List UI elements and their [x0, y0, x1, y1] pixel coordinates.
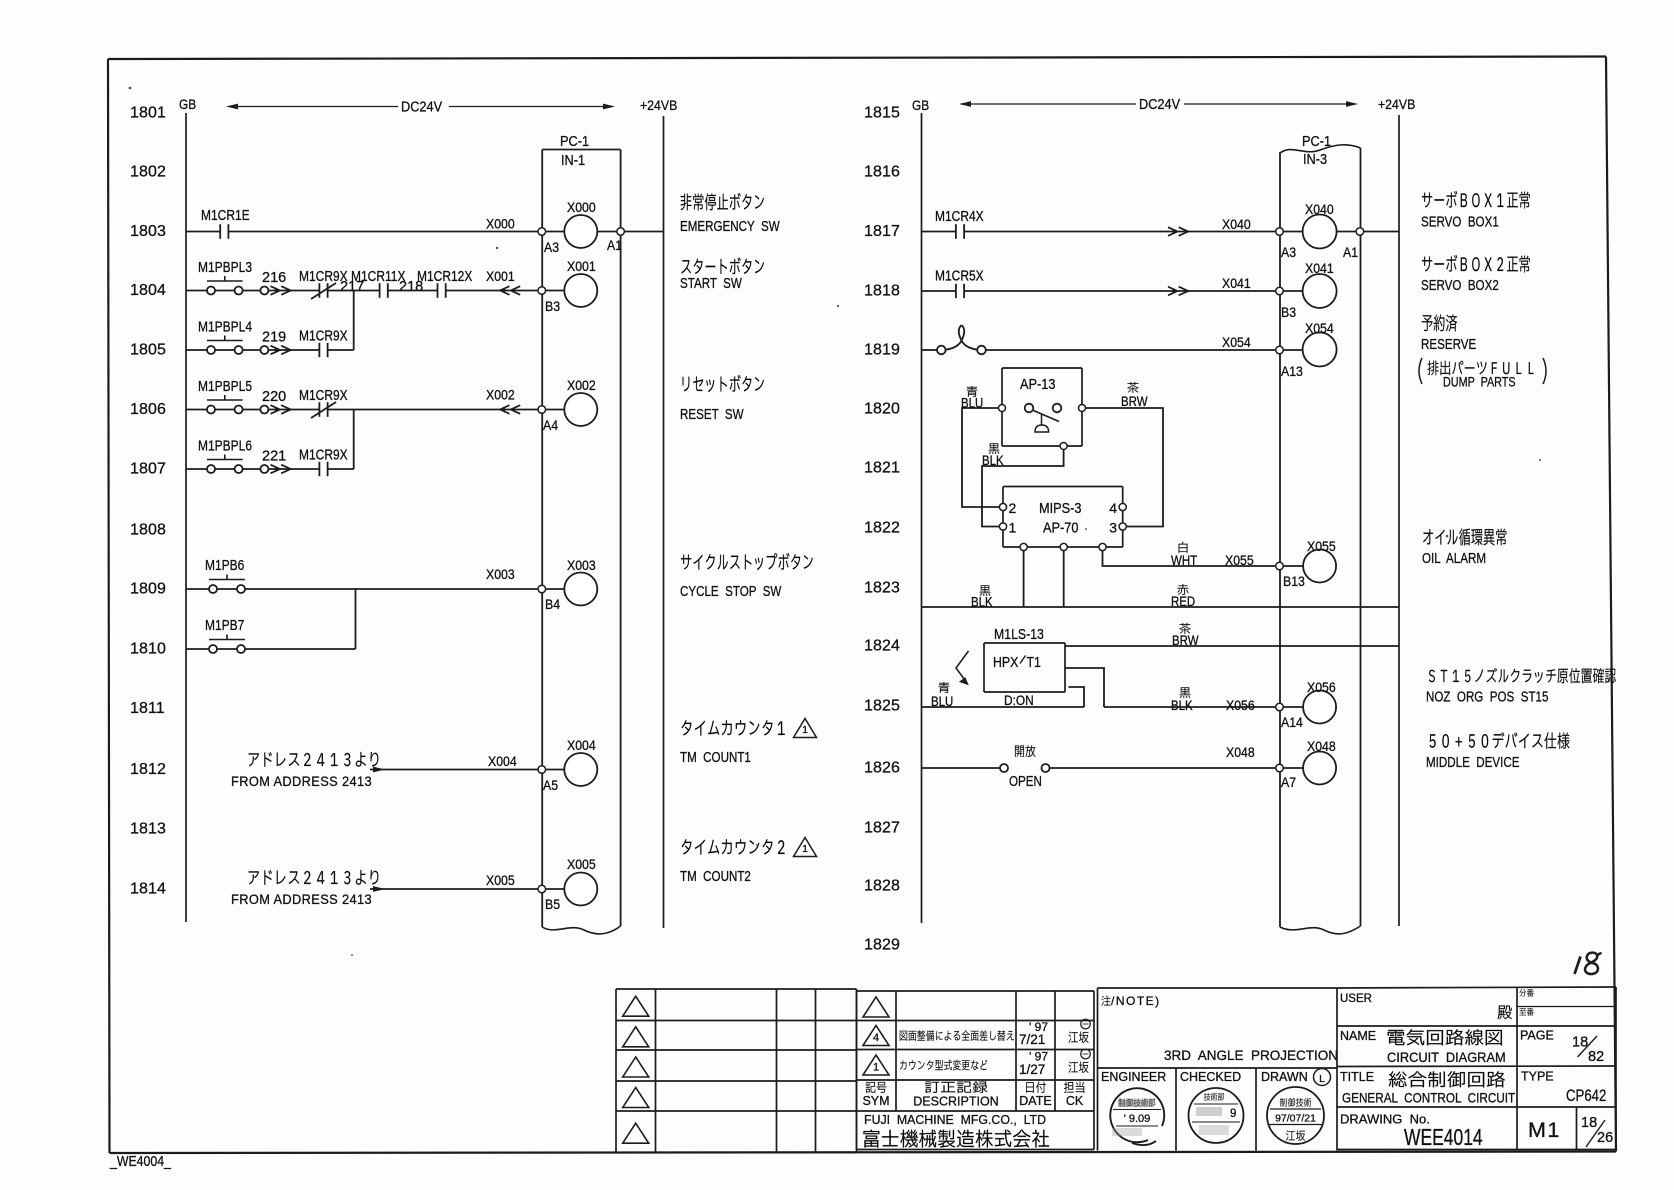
svg-text:M1CR5X: M1CR5X [935, 267, 984, 284]
svg-text:1803: 1803 [130, 223, 166, 240]
svg-text:X048: X048 [1307, 738, 1336, 754]
svg-text:1819: 1819 [864, 342, 900, 359]
wire marker 216 [260, 270, 290, 295]
stamp CHECKED [1189, 1088, 1244, 1143]
DRAWING No. cell WEE4014 [1340, 1112, 1483, 1151]
svg-text:1812: 1812 [130, 761, 166, 778]
svg-text:1826: 1826 [864, 760, 900, 777]
svg-text:1: 1 [1009, 520, 1017, 536]
USER cell [1340, 993, 1512, 1019]
note FROM ADDRESS 2413 (rung 1812) [231, 752, 378, 789]
wire BLK X056 to PLC [1104, 687, 1276, 713]
svg-text:1814: 1814 [130, 881, 166, 898]
wire BLK (AP-13 bottom pin to MIPS-3 pin 1) [982, 443, 1064, 526]
svg-text:MIPS-3: MIPS-3 [1039, 499, 1082, 516]
pushbutton M1PBPL6 [198, 437, 252, 473]
svg-text:CYCLE STOP SW: CYCLE STOP SW [680, 583, 782, 600]
svg-text:L: L [1319, 1073, 1325, 1085]
contact M1CR9X (NO) rung 1807 [299, 446, 348, 476]
wire rung 1803 [186, 216, 538, 232]
svg-text:BLK: BLK [982, 453, 1004, 468]
svg-text:1822: 1822 [864, 520, 900, 537]
PLC input X055 terminal B13 [1276, 538, 1336, 589]
note FROM ADDRESS 2413 (rung 1814) [231, 870, 378, 907]
svg-text:1811: 1811 [130, 700, 165, 717]
wire BRW (AP-13 to MIPS-3 pin 3) [1086, 382, 1164, 527]
TYPE cell CP642 [1521, 1070, 1606, 1106]
svg-text:A5: A5 [543, 777, 558, 793]
svg-text:X005: X005 [486, 872, 515, 888]
label TM COUNT1 with revision triangle [680, 719, 817, 766]
svg-text:X056: X056 [1307, 679, 1336, 695]
svg-text:X001: X001 [567, 258, 596, 274]
svg-text:1827: 1827 [864, 820, 900, 837]
svg-text:M1LS-13: M1LS-13 [994, 626, 1044, 642]
svg-text:X002: X002 [567, 377, 596, 393]
svg-text:1801: 1801 [130, 105, 166, 122]
PLC input X041 terminal B3 [1276, 260, 1337, 320]
wire rung 1818 [922, 275, 1277, 295]
wire BLU (GB rail to M1LS-13, rung 1825) [922, 682, 1085, 709]
net label GB (right) [912, 97, 929, 113]
label NOZ ORG POS ST15 [1426, 668, 1616, 705]
svg-text:/NOTE): /NOTE) [1111, 994, 1161, 1008]
svg-text:GB: GB [179, 96, 196, 112]
svg-text:1/27: 1/27 [1019, 1062, 1045, 1077]
power unit MIPS-3 AP-70 [999, 487, 1126, 551]
svg-text:1810: 1810 [130, 641, 166, 658]
svg-text:IN-3: IN-3 [1303, 151, 1327, 167]
svg-text:1816: 1816 [864, 164, 900, 181]
handwritten page number 18 [1575, 953, 1602, 974]
svg-text:1: 1 [873, 1062, 879, 1074]
wire rung 1806 [186, 387, 538, 414]
svg-text:X054: X054 [1222, 334, 1251, 350]
wire 1817 output to +24VB rail, terminal A1 [1343, 228, 1399, 260]
revision row 1: counter model change 97/1/27 [863, 1049, 1090, 1077]
note box 3RD ANGLE PROJECTION [1098, 988, 1339, 1151]
wire rung 1814 with arrow [370, 872, 538, 892]
revision row 4: full redraw 97/7/21 [863, 1019, 1090, 1047]
svg-text:BRW: BRW [1121, 394, 1148, 409]
svg-text:M1CR11X: M1CR11X [351, 268, 405, 285]
svg-text:OIL ALARM: OIL ALARM [1422, 550, 1486, 567]
contact M1CR9X (NC) rung 1806 [299, 387, 348, 418]
svg-text:BLK: BLK [971, 595, 993, 610]
svg-text:IN-1: IN-1 [561, 152, 585, 168]
contact M1CR9X (NO) rung 1805 [299, 327, 348, 357]
revision header SYM DESCRIPTION DATE CK [862, 1081, 1084, 1108]
svg-text:SERVO BOX2: SERVO BOX2 [1421, 277, 1499, 294]
wire rung 1809 [186, 566, 538, 589]
svg-text:9: 9 [1230, 1108, 1236, 1120]
svg-text:M1: M1 [1528, 1118, 1561, 1142]
svg-text:X002: X002 [486, 387, 515, 403]
svg-text:1805: 1805 [130, 342, 166, 359]
svg-text:1823: 1823 [864, 580, 900, 597]
svg-text:1824: 1824 [864, 638, 900, 655]
limit switch M1LS-13 HPX-T1 [956, 626, 1065, 708]
power rail +24VB (left) [663, 116, 665, 928]
svg-text:1809: 1809 [130, 581, 166, 598]
title block info grid [1337, 987, 1616, 1150]
svg-text:BLU: BLU [961, 396, 983, 411]
svg-text:DATE: DATE [1019, 1094, 1051, 1108]
svg-text:D:ON: D:ON [1004, 692, 1034, 708]
svg-text:4: 4 [1109, 500, 1117, 516]
svg-text:M1PBPL5: M1PBPL5 [198, 378, 252, 395]
svg-text:EMERGENCY SW: EMERGENCY SW [680, 218, 780, 235]
wire BLK (GB rail to MIPS-3) [922, 551, 1024, 610]
wire rung 1804 [186, 268, 538, 295]
label OIL ALARM [1422, 528, 1506, 566]
wire rung 1805 [186, 349, 354, 351]
svg-text:216: 216 [262, 270, 286, 286]
svg-text:CP642: CP642 [1566, 1087, 1606, 1106]
svg-text:1806: 1806 [130, 401, 166, 418]
svg-text:GB: GB [912, 97, 929, 113]
svg-text:M1CR9X: M1CR9X [299, 327, 348, 344]
svg-text:3: 3 [1109, 520, 1117, 536]
label SERVO BOX2 [1421, 255, 1530, 293]
svg-text:X004: X004 [567, 737, 596, 753]
svg-text:1804: 1804 [130, 282, 166, 299]
label RESERVE [1421, 314, 1476, 352]
svg-text:X056: X056 [1226, 697, 1255, 713]
wire rung 1819 [986, 334, 1276, 350]
svg-text:CHECKED: CHECKED [1180, 1070, 1241, 1084]
wire marker 221 [260, 449, 290, 474]
PLC input X002 terminal A4 [538, 377, 597, 433]
wire BLU (AP-13 pin to MIPS-3 pin 2) [961, 386, 999, 507]
svg-text:A1: A1 [607, 237, 622, 253]
svg-text:ENGINEER: ENGINEER [1101, 1070, 1166, 1084]
svg-text:2: 2 [1009, 500, 1017, 516]
svg-text:SERVO BOX1: SERVO BOX1 [1421, 213, 1499, 230]
svg-text:_WE4004_: _WE4004_ [109, 1153, 171, 1169]
svg-text:RESERVE: RESERVE [1421, 336, 1476, 353]
wire rung 1817 [922, 216, 1277, 236]
pushbutton M1PBPL4 [198, 318, 252, 354]
label EMERGENCY SW [680, 193, 780, 234]
label MIDDLE DEVICE [1426, 732, 1569, 770]
PLC module PC-1 IN-3 (right) [1280, 133, 1361, 934]
svg-text:1815: 1815 [864, 105, 900, 122]
power rail +24VB (right) [1398, 115, 1400, 926]
revision table (right) [857, 991, 1095, 1150]
svg-text:PC-1: PC-1 [560, 133, 589, 149]
svg-text:DRAWING No.: DRAWING No. [1340, 1112, 1430, 1127]
svg-text:1802: 1802 [130, 164, 166, 181]
svg-text:A13: A13 [1281, 363, 1303, 379]
svg-text:X054: X054 [1305, 320, 1334, 336]
svg-text:18: 18 [1581, 1115, 1597, 1131]
svg-text:B4: B4 [545, 596, 560, 612]
sheet M1 cell [1528, 1118, 1561, 1142]
svg-text:BLU: BLU [931, 694, 953, 709]
svg-text:A1: A1 [1343, 244, 1358, 260]
svg-text:220: 220 [262, 389, 286, 405]
svg-text:M1PBPL3: M1PBPL3 [198, 259, 252, 276]
wire rung 1812 with arrow [370, 753, 538, 772]
svg-text:X004: X004 [488, 753, 517, 769]
wire M1LS-13 mid pin to X056 wire [1065, 668, 1104, 707]
svg-text:A7: A7 [1281, 774, 1296, 790]
revision table (left) [616, 989, 857, 1153]
company name FUJI MACHINE MFG.CO., LTD [863, 1113, 1048, 1148]
contact M1CR12X (NO) [417, 268, 472, 298]
svg-text:1813: 1813 [130, 821, 166, 838]
contact M1CR11X (NO) [351, 268, 405, 298]
svg-text:USER: USER [1340, 993, 1372, 1005]
pushbutton M1PBPL5 [198, 378, 252, 414]
svg-text:B5: B5 [545, 896, 560, 912]
svg-text:SYM: SYM [862, 1094, 889, 1108]
junction wire 1810 to 1809 [355, 589, 357, 649]
label CYCLE STOP SW [680, 553, 813, 599]
svg-text:TYPE: TYPE [1521, 1070, 1554, 1084]
PLC input X054 terminal A13 [1276, 320, 1337, 379]
svg-text:MIDDLE DEVICE: MIDDLE DEVICE [1426, 754, 1520, 771]
svg-text:TM COUNT1: TM COUNT1 [680, 749, 751, 766]
svg-text:+24VB: +24VB [1378, 96, 1415, 112]
svg-text:AP-13: AP-13 [1020, 375, 1056, 392]
svg-text:X000: X000 [486, 216, 515, 232]
PLC input X004 terminal A5 [538, 737, 597, 793]
svg-text:1821: 1821 [864, 460, 900, 477]
svg-text:NOZ ORG POS ST15: NOZ ORG POS ST15 [1426, 688, 1548, 705]
svg-text:GENERAL CONTROL CIRCUIT: GENERAL CONTROL CIRCUIT [1342, 1091, 1515, 1106]
svg-text:DESCRIPTION: DESCRIPTION [913, 1095, 998, 1109]
svg-text:M1PBPL4: M1PBPL4 [198, 318, 252, 335]
wire 1803 output to +24VB rail, terminal A1 [607, 228, 664, 253]
svg-text:M1CR1E: M1CR1E [201, 207, 250, 224]
svg-text:WHT: WHT [1171, 553, 1197, 568]
contact OPEN (rung 1826) [1000, 745, 1050, 789]
svg-text:AP-70: AP-70 [1043, 518, 1079, 535]
svg-text:221: 221 [262, 449, 286, 465]
PAGE cell 18/82 [1520, 1029, 1604, 1066]
svg-text:M1PBPL6: M1PBPL6 [198, 437, 252, 454]
wire rung 1807 [186, 468, 354, 470]
stamp ENGINEER [1110, 1088, 1164, 1145]
svg-text:CIRCUIT DIAGRAM: CIRCUIT DIAGRAM [1387, 1050, 1506, 1065]
svg-text:DRAWN: DRAWN [1261, 1070, 1308, 1084]
svg-text:1817: 1817 [864, 223, 900, 240]
svg-text:RED: RED [1171, 594, 1195, 609]
svg-text:HPX: HPX [993, 654, 1018, 670]
contact M1CR5X (NO) [935, 267, 984, 298]
wire BRW (M1LS-13 to +24VB rail, rung 1824) [1065, 623, 1399, 648]
svg-text:M1CR9X: M1CR9X [299, 446, 348, 463]
PLC input X003 terminal B4 [538, 557, 597, 612]
svg-text:A3: A3 [1281, 244, 1296, 260]
svg-text:START SW: START SW [680, 275, 742, 292]
svg-text:X041: X041 [1305, 260, 1334, 276]
svg-text:FROM ADDRESS 2413: FROM ADDRESS 2413 [231, 774, 372, 789]
label DUMP PARTS FULL [1419, 358, 1546, 390]
svg-text:TITLE: TITLE [1340, 1070, 1374, 1084]
svg-text:M1CR4X: M1CR4X [935, 208, 984, 225]
power rail GB (left) [185, 113, 187, 922]
svg-text:T1: T1 [1027, 654, 1041, 670]
svg-text:DUMP PARTS: DUMP PARTS [1443, 374, 1516, 389]
svg-text:97/07/21: 97/07/21 [1275, 1113, 1316, 1125]
voltage span arrow DC24V (left) [226, 99, 615, 115]
proximity loop sensor (rung 1819) [922, 325, 986, 354]
svg-text:X003: X003 [486, 566, 515, 582]
svg-text:BRW: BRW [1172, 633, 1199, 648]
svg-text:1: 1 [802, 843, 808, 855]
svg-text:FUJI MACHINE MFG.CO., LTD: FUJI MACHINE MFG.CO., LTD [864, 1113, 1046, 1127]
revision row blank triangle [863, 997, 889, 1017]
contact M1CR1E (NO) [201, 207, 250, 239]
contact M1CR4X (NO) [935, 208, 984, 239]
wire marker 219 [260, 330, 290, 355]
svg-text:A3: A3 [544, 239, 559, 255]
label SERVO BOX1 [1421, 191, 1530, 230]
power rail GB (right) [921, 113, 923, 923]
svg-text:X003: X003 [567, 557, 596, 573]
svg-text:26: 26 [1597, 1130, 1613, 1146]
svg-text:DC24V: DC24V [1139, 96, 1181, 112]
scan speckle dots [129, 87, 1542, 956]
svg-text:M1PB6: M1PB6 [205, 557, 244, 574]
TITLE cell: GENERAL CONTROL CIRCUIT [1340, 1070, 1515, 1106]
svg-text:WEE4014: WEE4014 [1404, 1126, 1483, 1151]
class number cells [1519, 989, 1533, 1016]
svg-text:4: 4 [873, 1032, 879, 1044]
svg-text:M1PB7: M1PB7 [205, 617, 244, 634]
svg-text:7/21: 7/21 [1019, 1032, 1045, 1047]
wire rung 1826 [922, 744, 1277, 768]
wire rung 1810 [186, 648, 356, 650]
svg-text:1807: 1807 [130, 461, 166, 478]
svg-text:' 9.09: ' 9.09 [1124, 1113, 1151, 1125]
svg-text:B3: B3 [545, 298, 560, 314]
net label +24VB (left) [640, 97, 677, 113]
label RESET SW [680, 375, 764, 422]
svg-text:X040: X040 [1305, 201, 1334, 217]
voltage span arrow DC24V (right) [959, 96, 1358, 112]
svg-text:X055: X055 [1307, 538, 1336, 554]
float switch AP-13 [999, 368, 1086, 450]
svg-text:1818: 1818 [864, 283, 900, 300]
svg-text:1825: 1825 [864, 698, 900, 715]
svg-text:+24VB: +24VB [640, 97, 677, 113]
PLC input X040 terminal A3 [1276, 201, 1356, 260]
svg-text:FROM ADDRESS 2413: FROM ADDRESS 2413 [231, 892, 372, 907]
svg-text:CK: CK [1066, 1094, 1084, 1108]
svg-text:PC-1: PC-1 [1302, 133, 1331, 149]
junction wire 1807 to 1806 [353, 410, 355, 470]
sheet index 18/26 [1581, 1115, 1613, 1147]
net label GB (left) [179, 96, 196, 112]
sheet code _WE4004_ [109, 1153, 171, 1169]
svg-text:1820: 1820 [864, 401, 900, 418]
wire marker 220 [260, 389, 290, 414]
svg-text:3RD ANGLE PROJECTION: 3RD ANGLE PROJECTION [1164, 1048, 1338, 1063]
svg-text:X000: X000 [567, 199, 596, 215]
wire WHT to X055 [1103, 542, 1277, 568]
svg-text:X041: X041 [1222, 275, 1251, 291]
svg-text:PAGE: PAGE [1520, 1029, 1554, 1043]
pushbutton M1PB7 [205, 617, 245, 653]
PLC input X056 terminal A14 [1276, 679, 1336, 730]
label 218 [399, 279, 423, 295]
svg-text:82: 82 [1588, 1049, 1604, 1065]
stamp cells ENGINEER CHECKED DRAWN [1098, 988, 1338, 1151]
wire RED (MIPS-3 to +24VB rail) [1024, 551, 1399, 610]
svg-text:1829: 1829 [864, 937, 900, 954]
label TM COUNT2 with revision triangle [680, 838, 817, 885]
svg-text:X048: X048 [1226, 744, 1255, 760]
PLC input X001 terminal B3 [538, 258, 597, 314]
contact M1CR9X (NC) rung 1804 [299, 268, 348, 299]
NAME cell: CIRCUIT DIAGRAM [1340, 1029, 1506, 1065]
svg-text:OPEN: OPEN [1009, 773, 1042, 790]
svg-text:B13: B13 [1283, 573, 1305, 589]
left rung numbers 1801-1814 [130, 105, 166, 898]
svg-text:X055: X055 [1225, 552, 1254, 568]
pushbutton M1PB6 [205, 557, 245, 593]
svg-text:NAME: NAME [1340, 1029, 1376, 1043]
svg-text:A4: A4 [543, 417, 558, 433]
right rung numbers 1815-1829 [864, 105, 900, 954]
svg-text:1: 1 [802, 724, 808, 736]
svg-text:X005: X005 [567, 856, 596, 872]
svg-text:X040: X040 [1222, 216, 1251, 232]
svg-text:TM COUNT2: TM COUNT2 [680, 868, 751, 885]
PLC module PC-1 IN-1 (left) [542, 133, 620, 934]
svg-text:RESET SW: RESET SW [680, 406, 744, 423]
svg-text:1808: 1808 [130, 522, 166, 539]
svg-text:219: 219 [262, 330, 286, 346]
junction wire 1805 to 1804 [353, 291, 355, 351]
svg-text:M1CR12X: M1CR12X [417, 268, 472, 285]
PLC input X048 terminal A7 [1276, 738, 1336, 790]
pushbutton M1PBPL3 [198, 259, 252, 295]
svg-text:BLK: BLK [1171, 698, 1193, 713]
net label +24VB (right) [1378, 96, 1415, 112]
label START SW [680, 257, 764, 291]
svg-text:A14: A14 [1281, 714, 1303, 730]
svg-text:DC24V: DC24V [401, 99, 443, 115]
label 217 [340, 279, 364, 295]
stamp DRAWN [1267, 1087, 1324, 1144]
PLC input X005 terminal B5 [538, 856, 597, 912]
svg-text:M1CR9X: M1CR9X [299, 387, 348, 404]
PLC input X000 terminal A3 [538, 199, 617, 255]
svg-text:X001: X001 [486, 268, 515, 284]
svg-text:B3: B3 [1281, 304, 1296, 320]
svg-text:1828: 1828 [864, 878, 900, 895]
